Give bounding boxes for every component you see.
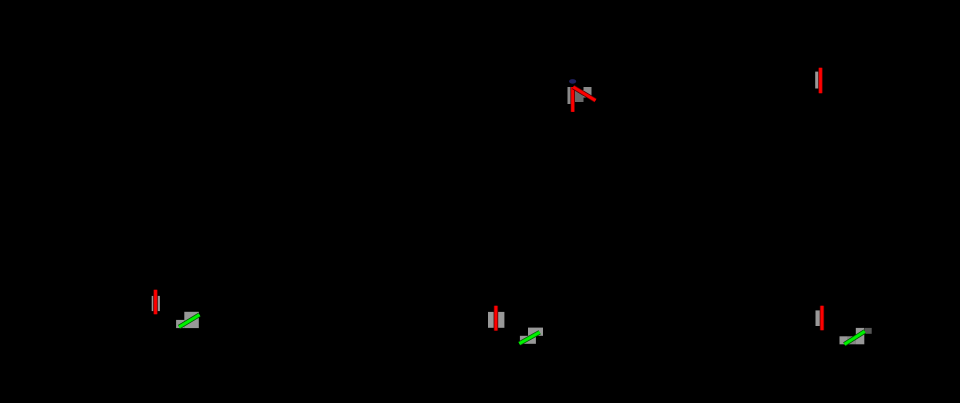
atom label box O bottom (mol 3)	[816, 310, 822, 326]
atom label box Cl small (mol 1)	[176, 320, 184, 328]
bond C-Cl green half (mol 3)	[844, 331, 864, 344]
atom label box Cl mid (mol 3)	[848, 336, 856, 344]
atom label box Cl tall (mol 3)	[856, 328, 865, 344]
bond C=O red half (mol 2)	[494, 306, 499, 331]
atom label box Cl upper (mol 2)	[528, 328, 543, 336]
bond C=O red half bottom (mol 3)	[820, 306, 825, 330]
bond C=O red half top (mol 3)	[818, 68, 823, 93]
bond C-Cl green half (mol 2)	[519, 332, 539, 343]
atom label box Cl lower (mol 2)	[520, 336, 536, 344]
atom label box O top (mol 3)	[815, 72, 821, 89]
atom label box mid (mol 2 ring)	[575, 90, 584, 102]
atom label box Cl small (mol 3)	[840, 336, 848, 344]
bond C=O red half (mol 1)	[153, 290, 158, 314]
atom label box right (mol 2 ring)	[584, 87, 592, 98]
atom label box Cl big (mol 1)	[184, 312, 199, 328]
bond C-Cl green half (mol 1)	[179, 315, 199, 327]
atom label N blue dot (mol 2)	[569, 79, 576, 84]
bond O-C red vertical half (mol 2)	[570, 87, 575, 112]
atom label box O (mol 1)	[152, 296, 160, 311]
atom label box Cl faint (mol 3)	[865, 328, 872, 334]
atom label box left (mol 2 ring)	[568, 87, 572, 104]
atom label box O (mol 2)	[488, 312, 504, 328]
bond O-C red diagonal half (mol 2)	[573, 87, 595, 101]
